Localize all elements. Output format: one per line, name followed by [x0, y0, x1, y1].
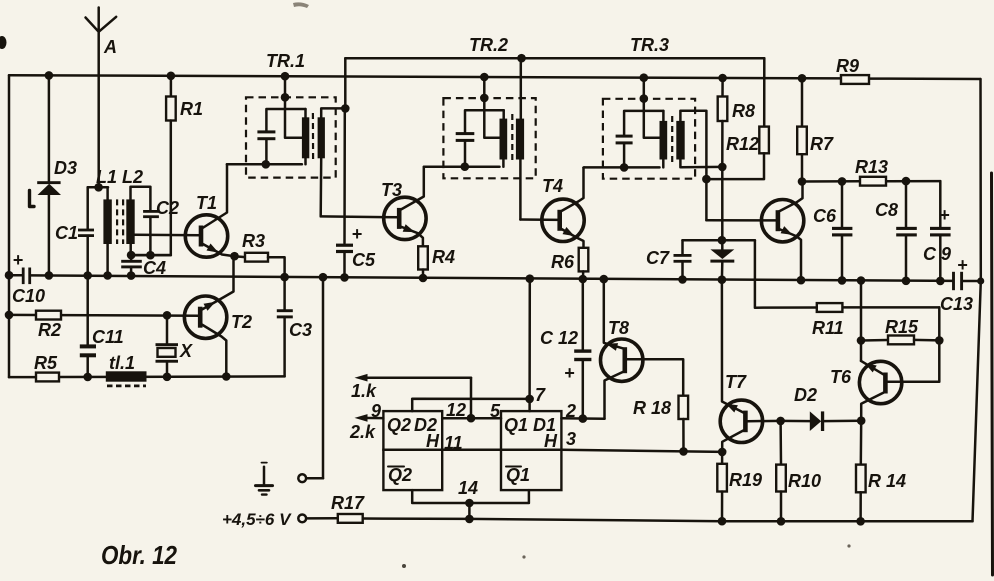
svg-text:2.k: 2.k	[349, 422, 376, 442]
svg-text:C7: C7	[646, 248, 670, 268]
svg-text:C 9: C 9	[923, 244, 951, 264]
transistor T7	[718, 280, 763, 457]
wire: T4 base	[520, 218, 559, 221]
svg-text:L2: L2	[122, 167, 143, 187]
svg-text:C6: C6	[813, 206, 837, 226]
svg-text:R19: R19	[729, 470, 762, 490]
capacitor TR.1 tuning	[257, 109, 305, 164]
wire: TR.1 secondary to C5	[343, 108, 346, 243]
resistor R5	[36, 373, 59, 382]
label R7	[810, 134, 834, 154]
coil L2	[126, 187, 150, 255]
capacitor C1	[78, 187, 94, 275]
wire: T8 base to R18	[627, 359, 683, 395]
wire: T1 base	[135, 233, 201, 236]
label R5	[34, 353, 58, 373]
label 2.k	[349, 422, 376, 442]
coil TR.1 primary	[227, 109, 309, 169]
svg-text:C 12: C 12	[540, 328, 578, 348]
junction: TR.2 secondary top on feed line	[517, 54, 526, 63]
junction dots on bottom rail	[465, 515, 865, 526]
capacitor C13	[952, 255, 968, 290]
block tl.1	[106, 371, 147, 386]
IC block Q1 lower	[501, 450, 561, 490]
ferrite core TR.2	[511, 114, 513, 163]
capacitor C4	[121, 255, 142, 276]
capacitor C8	[896, 181, 917, 281]
svg-text:+: +	[564, 363, 575, 383]
label D3	[54, 158, 77, 178]
label C10	[12, 286, 45, 306]
svg-text:+: +	[13, 250, 24, 270]
svg-text:C3: C3	[289, 320, 312, 340]
resistor R3	[235, 253, 285, 277]
transistor T6	[859, 361, 901, 421]
label R10	[788, 471, 821, 491]
junction: T1 emitter node	[230, 252, 239, 261]
transistor T2	[184, 256, 233, 376]
wire: D-input line (pin7)	[412, 395, 534, 412]
svg-text:R3: R3	[242, 231, 265, 251]
wire: R11 feedback	[683, 240, 940, 340]
svg-text:R15: R15	[885, 317, 919, 337]
label T1	[196, 193, 217, 213]
label pin 11	[444, 433, 463, 453]
label pin 5	[490, 401, 501, 421]
svg-text:R6: R6	[551, 252, 575, 272]
label pin 7	[535, 385, 546, 405]
svg-text:Obr. 12: Obr. 12	[101, 540, 177, 570]
svg-text:C4: C4	[143, 258, 166, 278]
wire: terminal drop	[306, 277, 323, 478]
IC block Q1/D1 upper	[501, 411, 561, 450]
label T2	[231, 312, 252, 332]
label tl.1	[109, 353, 135, 373]
svg-text:R1: R1	[180, 99, 203, 119]
capacitor TR.2 tuning	[456, 110, 504, 167]
label R17	[331, 493, 365, 513]
label R6	[551, 252, 575, 272]
svg-text:C1: C1	[55, 223, 78, 243]
wire: TR.2/TR.3 feed line	[345, 57, 764, 60]
scan speck	[402, 544, 851, 568]
wire: R13 feed line	[802, 177, 940, 186]
svg-text:Q2: Q2	[388, 465, 412, 485]
antenna A	[86, 8, 117, 188]
svg-text:C10: C10	[12, 286, 45, 306]
label C6	[813, 206, 837, 226]
label C12	[540, 328, 578, 348]
coil TR.2 primary	[424, 110, 507, 171]
wire: T3 base from TR.1	[321, 215, 400, 218]
wire: TR.2 centre tap	[480, 77, 500, 138]
label TR.2	[469, 35, 508, 55]
coil TR.1 secondary	[318, 58, 350, 216]
svg-text:TR.1: TR.1	[266, 51, 305, 71]
label T7	[725, 372, 747, 392]
svg-text:L1: L1	[96, 167, 117, 187]
wire: H line (pin11/pin3)	[442, 450, 722, 452]
capacitor C11	[80, 276, 96, 377]
label Q1-bar	[506, 465, 530, 485]
scan edge line right	[992, 173, 993, 575]
label C1	[55, 223, 78, 243]
label C5	[352, 250, 376, 270]
label C11	[92, 327, 124, 347]
label C4	[143, 258, 166, 278]
svg-text:X: X	[179, 341, 193, 361]
transformer TR.1 box	[246, 97, 336, 177]
label L1	[96, 167, 117, 187]
label T6	[830, 367, 852, 387]
label R14	[868, 471, 906, 491]
svg-text:R2: R2	[38, 320, 61, 340]
svg-text:R4: R4	[432, 247, 455, 267]
scan smudge top edge	[293, 2, 309, 8]
svg-text:T2: T2	[231, 312, 252, 332]
svg-text:TR.2: TR.2	[469, 35, 508, 55]
transistor T1	[185, 164, 234, 257]
coil TR.3 primary	[584, 111, 667, 172]
transformer TR.3 box	[603, 99, 695, 179]
label R4	[432, 247, 455, 267]
label C13	[940, 294, 973, 314]
label Q2-bar	[388, 465, 412, 485]
wire: T7 base to D2	[748, 417, 785, 426]
wire: T5 base	[706, 219, 778, 222]
label pin 14	[458, 478, 478, 498]
svg-text:T4: T4	[542, 176, 563, 196]
scan mark left edge	[0, 36, 7, 49]
wire: pin2 line	[561, 414, 604, 423]
label R12	[726, 134, 759, 154]
coil L1	[103, 187, 111, 275]
capacitor C9	[930, 181, 951, 281]
svg-text:R8: R8	[732, 101, 755, 121]
svg-text:R17: R17	[331, 493, 365, 513]
resistor R10	[776, 421, 786, 521]
label C7	[646, 248, 670, 268]
svg-text:R5: R5	[34, 353, 58, 373]
label R13	[855, 157, 888, 177]
labels inside Q2 box	[387, 415, 440, 451]
svg-text:Q1: Q1	[506, 465, 530, 485]
caption Obr. 12	[101, 540, 177, 570]
wire: T4 collector to TR.3	[582, 166, 585, 169]
wire: mid common rail	[9, 275, 981, 281]
wire: TR.1 centre tap	[281, 76, 302, 138]
label R9	[836, 56, 859, 76]
svg-text:D2: D2	[794, 385, 817, 405]
svg-text:T7: T7	[725, 372, 747, 392]
resistor R13	[860, 177, 886, 186]
label C3	[289, 320, 312, 340]
capacitor C3	[277, 277, 293, 376]
svg-text:R 14: R 14	[868, 471, 906, 491]
ferrite core TR.1	[312, 113, 314, 162]
label C8	[875, 200, 898, 220]
junction dots on top rail	[45, 71, 807, 83]
label pin 2	[565, 401, 576, 421]
resistor R7	[797, 78, 807, 186]
label TR.1	[266, 51, 305, 71]
svg-text:+: +	[939, 205, 950, 225]
label TR.3	[630, 35, 669, 55]
wire: rail to R15/T6 emitter	[857, 281, 866, 361]
resistor R2	[36, 311, 61, 320]
svg-text:+: +	[352, 224, 363, 244]
svg-text:H: H	[426, 431, 440, 451]
resistor R4	[418, 246, 428, 278]
label D2	[794, 385, 817, 405]
capacitor C6	[832, 181, 852, 280]
svg-text:1.k: 1.k	[351, 381, 377, 401]
label R15	[885, 317, 919, 337]
label L2	[122, 167, 143, 187]
junction dots on mid rail	[5, 271, 985, 285]
svg-text:T1: T1	[196, 193, 217, 213]
wire: 1.k output	[355, 374, 472, 418]
svg-text:Q2: Q2	[387, 415, 411, 435]
svg-text:R12: R12	[726, 134, 759, 154]
resistor R6	[579, 248, 589, 279]
capacitor C5	[336, 224, 363, 277]
resistor R8	[718, 78, 728, 171]
label C2	[156, 198, 179, 218]
svg-text:C11: C11	[92, 327, 124, 347]
wire: T2 base from R2 rail	[5, 311, 201, 320]
svg-text:3: 3	[566, 429, 576, 449]
svg-text:tl.1: tl.1	[109, 353, 135, 373]
svg-text:Q1: Q1	[504, 415, 528, 435]
wire: left border vertical	[8, 75, 11, 377]
svg-text:9: 9	[371, 401, 381, 421]
diode D2	[781, 411, 866, 431]
label T3	[381, 180, 402, 200]
labels inside Q1 box	[504, 415, 558, 451]
IC block Q2 lower	[383, 450, 442, 490]
wire: 2.k output (pin 9)	[355, 414, 384, 422]
svg-text:R7: R7	[810, 134, 834, 154]
transistor T5	[761, 182, 803, 281]
terminal +4.5-6V	[298, 515, 306, 523]
label T8	[608, 318, 629, 338]
resistor R14	[856, 421, 866, 522]
wire: right border	[973, 79, 981, 521]
svg-text:14: 14	[458, 478, 478, 498]
diode D1 detector	[710, 167, 734, 280]
wire: top supply rail	[9, 75, 981, 79]
resistor R18	[679, 396, 689, 456]
diode D3	[37, 75, 61, 275]
transformer TR.2 box	[443, 98, 535, 178]
label R8	[732, 101, 755, 121]
label R3	[242, 231, 265, 251]
resistor R19	[717, 452, 727, 521]
transistor T8	[601, 279, 643, 419]
capacitor C10	[13, 250, 32, 284]
svg-text:+: +	[957, 255, 968, 275]
svg-text:7: 7	[535, 385, 546, 405]
ferrite core TR.3	[671, 116, 673, 164]
wire: pin12-pin5 link	[442, 414, 501, 423]
svg-text:+4,5÷6 V: +4,5÷6 V	[222, 510, 292, 529]
svg-text:R13: R13	[855, 157, 888, 177]
label T4	[542, 176, 563, 196]
resistor R1	[131, 76, 176, 255]
wire: lower left rail (R5 rail)	[9, 372, 285, 381]
label R2	[38, 320, 61, 340]
svg-text:H: H	[544, 431, 558, 451]
wire: Q-bar bus (pin14)	[412, 490, 529, 519]
svg-text:R10: R10	[788, 471, 821, 491]
wire: TR.3 centre tap	[640, 78, 660, 138]
resistor R11	[817, 303, 843, 312]
svg-text:R11: R11	[812, 318, 844, 338]
transistor T3	[384, 167, 426, 247]
svg-text:C13: C13	[940, 294, 973, 314]
wire: T6 base loop	[888, 340, 940, 381]
label R18	[633, 398, 671, 418]
svg-text:T6: T6	[830, 367, 852, 387]
resistor R15	[861, 336, 944, 345]
capacitor C2	[143, 210, 159, 255]
IC block Q2/D2 upper	[383, 411, 442, 450]
svg-text:2: 2	[565, 401, 576, 421]
label pin 9	[371, 401, 381, 421]
label A	[103, 37, 117, 57]
label pin 12	[446, 400, 466, 420]
resistor R17	[338, 514, 363, 523]
resistor R12	[702, 58, 769, 183]
coil TR.3 secondary	[676, 111, 722, 220]
label supply voltage	[222, 510, 292, 529]
capacitor C12	[564, 279, 591, 419]
label 1.k	[351, 381, 377, 401]
svg-text:R9: R9	[836, 56, 859, 76]
crystal X	[156, 315, 179, 377]
label X	[179, 341, 193, 361]
resistor R9	[841, 75, 869, 84]
svg-text:C5: C5	[352, 250, 376, 270]
label pin 3	[566, 429, 576, 449]
capacitor C7	[674, 240, 755, 279]
terminal circle	[298, 474, 306, 482]
label R19	[729, 470, 762, 490]
svg-text:5: 5	[490, 401, 501, 421]
ground symbol	[256, 463, 273, 495]
label R1	[180, 99, 203, 119]
svg-text:A: A	[103, 37, 117, 57]
stray ink mark	[30, 191, 35, 207]
svg-text:12: 12	[446, 400, 466, 420]
transistor T4	[542, 168, 584, 248]
svg-text:D3: D3	[54, 158, 77, 178]
label C9	[923, 244, 951, 264]
svg-text:T3: T3	[381, 180, 402, 200]
svg-text:C8: C8	[875, 200, 898, 220]
label R11	[812, 318, 844, 338]
wire: bottom supply rail	[306, 518, 972, 521]
svg-text:T8: T8	[608, 318, 629, 338]
wire: L2 bottom node	[127, 251, 171, 260]
coil TR.2 secondary	[516, 58, 524, 219]
ferrite core L1/L2	[117, 199, 123, 244]
wire: antenna node to C1/L1	[88, 183, 108, 192]
svg-text:TR.3: TR.3	[630, 35, 669, 55]
svg-text:R 18: R 18	[633, 398, 671, 418]
svg-text:11: 11	[444, 433, 463, 453]
svg-text:C2: C2	[156, 198, 179, 218]
capacitor TR.3 tuning	[616, 111, 664, 167]
wire: pin7 riser	[528, 279, 531, 399]
